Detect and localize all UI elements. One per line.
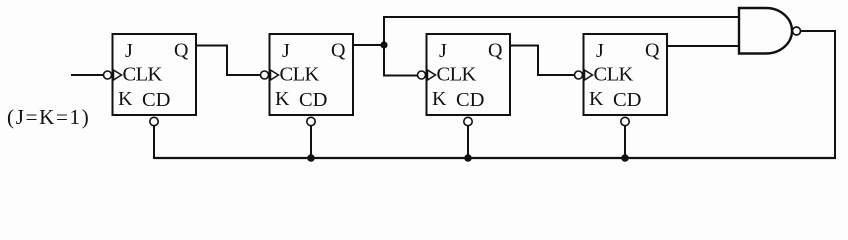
wire FF3.Q to FF4.CLK	[510, 46, 574, 76]
svg-text:(J=K=1): (J=K=1)	[7, 105, 90, 129]
svg-text:J: J	[596, 40, 604, 62]
svg-text:J: J	[125, 40, 133, 62]
svg-text:K: K	[432, 88, 447, 110]
wire NAND output to right vertical	[801, 30, 836, 32]
svg-text:CLK: CLK	[437, 64, 477, 86]
wire right vertical feedback	[834, 30, 836, 158]
wire FF3.CD drop	[467, 126, 469, 158]
flip-flop FF1	[104, 34, 197, 126]
svg-text:Q: Q	[645, 40, 660, 62]
NAND gate U1	[739, 8, 792, 54]
svg-text:CLK: CLK	[123, 64, 163, 86]
wire FF1.CD drop	[153, 126, 155, 159]
junction dot FF3.CD	[464, 154, 472, 162]
svg-text:K: K	[589, 88, 604, 110]
svg-text:CLK: CLK	[280, 64, 320, 86]
svg-text:J: J	[439, 40, 447, 62]
flip-flop FF4	[575, 34, 668, 126]
wire top feedback line to NAND input	[383, 16, 739, 18]
wire node A down to FF3.CLK	[384, 45, 417, 76]
wire FF2.Q to node A	[353, 44, 384, 46]
flip-flop FF3	[418, 34, 511, 126]
wire FF1.Q to FF2.CLK	[196, 46, 260, 76]
wire node A up to top feedback line	[383, 17, 385, 45]
svg-text:Q: Q	[331, 40, 346, 62]
svg-text:CD: CD	[142, 89, 170, 111]
svg-text:CD: CD	[456, 89, 484, 111]
junction dot FF2.CD	[307, 154, 315, 162]
svg-text:K: K	[275, 88, 290, 110]
svg-text:K: K	[118, 88, 133, 110]
svg-text:Q: Q	[174, 40, 189, 62]
svg-text:CLK: CLK	[594, 64, 634, 86]
svg-text:Q: Q	[488, 40, 503, 62]
wire bottom feedback line	[154, 157, 836, 159]
svg-text:J: J	[282, 40, 290, 62]
wire clock input	[71, 74, 104, 76]
NAND output bubble	[793, 27, 801, 35]
wire FF4.CD drop	[624, 126, 626, 158]
wire FF2.CD drop	[310, 126, 312, 158]
junction dot FF4.CD	[621, 154, 629, 162]
svg-text:CD: CD	[299, 89, 327, 111]
svg-text:CD: CD	[613, 89, 641, 111]
wire FF4.Q to NAND input	[667, 45, 739, 47]
node A junction dot	[380, 41, 387, 48]
flip-flop FF2	[261, 34, 354, 126]
